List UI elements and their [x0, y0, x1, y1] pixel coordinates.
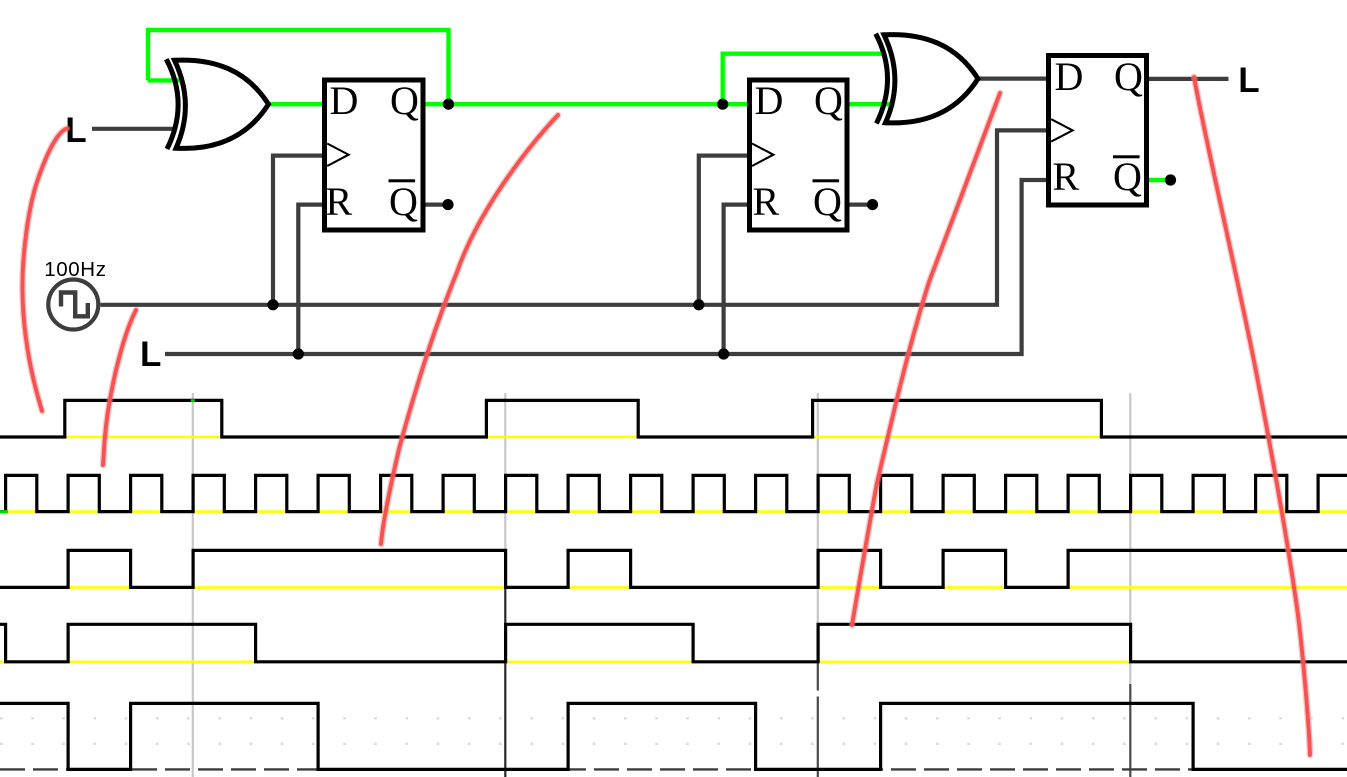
svg-text:R: R [1053, 154, 1080, 199]
scope trace 4 [0, 624, 1347, 662]
flip-flop U3 box [325, 80, 424, 230]
trace2 baseline green tick [0, 510, 8, 513]
scope trace 1 (output L waveform) [0, 400, 1347, 437]
trace2 baseline yellow [0, 510, 1347, 513]
terminal dot FF3 Qbar [1165, 174, 1176, 185]
U4 clock triangle [752, 144, 773, 167]
svg-text:L: L [140, 335, 161, 374]
svg-text:D: D [755, 78, 784, 123]
U5 Qbar overline [1113, 155, 1140, 158]
svg-text:L: L [1238, 61, 1259, 100]
wire green FF1 Q to FF2 D [423, 102, 748, 106]
wire FF2 Qbar stub [847, 203, 869, 207]
wire L input to XOR1 [92, 127, 176, 131]
U3 Qbar overline [389, 179, 416, 182]
scope gridline t1 x=192.8 [192, 393, 194, 777]
annotation arrow 1 (L input to trace1) [22, 129, 67, 412]
trace5 dotted gridline upper [0, 717, 1347, 719]
junction node clock-FF1 [267, 299, 278, 310]
wire reset bus [165, 180, 1048, 354]
wire green FF2 Q to XOR2 lower input [847, 102, 890, 106]
U3 clock triangle [327, 144, 348, 167]
clock source V1 circle [48, 280, 98, 330]
terminal dot FF2 Qbar [867, 199, 878, 210]
wire FF3 Q output [1147, 77, 1229, 81]
annotation arrow 4 (XOR2 out to trace4) [852, 93, 1000, 625]
trace4 baseline yellow [0, 660, 1347, 663]
annotation arrow 2 (clock to trace2) [103, 310, 136, 465]
wire green XOR1 upper input [148, 78, 180, 82]
svg-text:100Hz: 100Hz [44, 258, 106, 281]
junction node D2 [717, 99, 728, 110]
clock source V1 square-wave glyph [61, 293, 88, 317]
svg-text:Q: Q [813, 179, 842, 224]
U5 clock triangle [1051, 119, 1072, 141]
wire clock bus [101, 130, 1049, 304]
annotation arrow 5 (Q3 to trace5) [1194, 77, 1310, 755]
wire FF3 Qbar stub green [1147, 178, 1167, 182]
scope gridline t3 x=817.8 lower dark [817, 662, 819, 691]
junction node Q1-feedback [443, 99, 454, 110]
svg-text:D: D [330, 78, 359, 123]
scope trace 5 [0, 703, 1347, 769]
wire green FF2 D feedback up/over to XOR2 [723, 54, 886, 104]
junction node clock-FF2 [693, 299, 704, 310]
xor gate U2 [876, 34, 978, 124]
flip-flop U4 box [750, 80, 848, 230]
wire reset to FF1 [298, 205, 324, 354]
scope trace 3 [0, 550, 1347, 587]
U4 Qbar overline [813, 179, 840, 182]
svg-text:R: R [326, 179, 353, 224]
scope gridline t4 x=1130.3 lower dark [1129, 684, 1131, 777]
svg-text:Q: Q [1114, 54, 1143, 99]
wire reset to FF2 [724, 205, 748, 354]
xor gate U1 [166, 59, 268, 149]
wire green feedback Q1 top loop [148, 30, 449, 104]
svg-text:R: R [753, 179, 780, 224]
trace5 dashed axis [0, 768, 1347, 770]
wire clock to FF1 [273, 156, 324, 305]
svg-text:Q: Q [814, 78, 843, 123]
wire green XOR1 output to FF1 D [266, 102, 325, 106]
scope trace 2 (clock waveform) [0, 475, 1347, 511]
svg-text:Q: Q [389, 179, 418, 224]
trace1 baseline yellow [0, 436, 1347, 439]
wire XOR2 output to FF3 D [977, 76, 1048, 80]
trace3 baseline yellow [0, 586, 1347, 589]
scope gridline t2 x=505.3 lower dark [504, 588, 506, 777]
trace1 green mark on gridline [191, 399, 195, 402]
svg-text:Q: Q [390, 78, 419, 123]
scope gridline t2 x=505.3 upper [504, 393, 506, 588]
terminal dot FF1 Qbar [442, 199, 453, 210]
wire FF1 Qbar stub [423, 203, 445, 207]
scope gridline t4 x=1130.3 upper [1129, 393, 1131, 684]
trace5 dotted gridline lower [0, 743, 1347, 745]
scope gridline t3 x=817.8 upper [817, 393, 819, 662]
annotation arrow 3 (Q1 to trace3) [381, 115, 558, 544]
junction node reset-FF2 [718, 348, 729, 359]
flip-flop U5 box [1049, 56, 1147, 206]
svg-text:Q: Q [1113, 154, 1142, 199]
junction node reset-FF1 [293, 348, 304, 359]
wire clock to FF2 [699, 156, 748, 305]
svg-text:D: D [1055, 54, 1084, 99]
